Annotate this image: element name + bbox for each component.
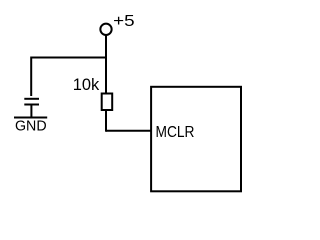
svg-text:+5: +5	[113, 13, 135, 30]
svg-text:10k: 10k	[73, 75, 100, 94]
svg-text:MCLR: MCLR	[156, 124, 195, 141]
svg-text:GND: GND	[15, 118, 47, 135]
